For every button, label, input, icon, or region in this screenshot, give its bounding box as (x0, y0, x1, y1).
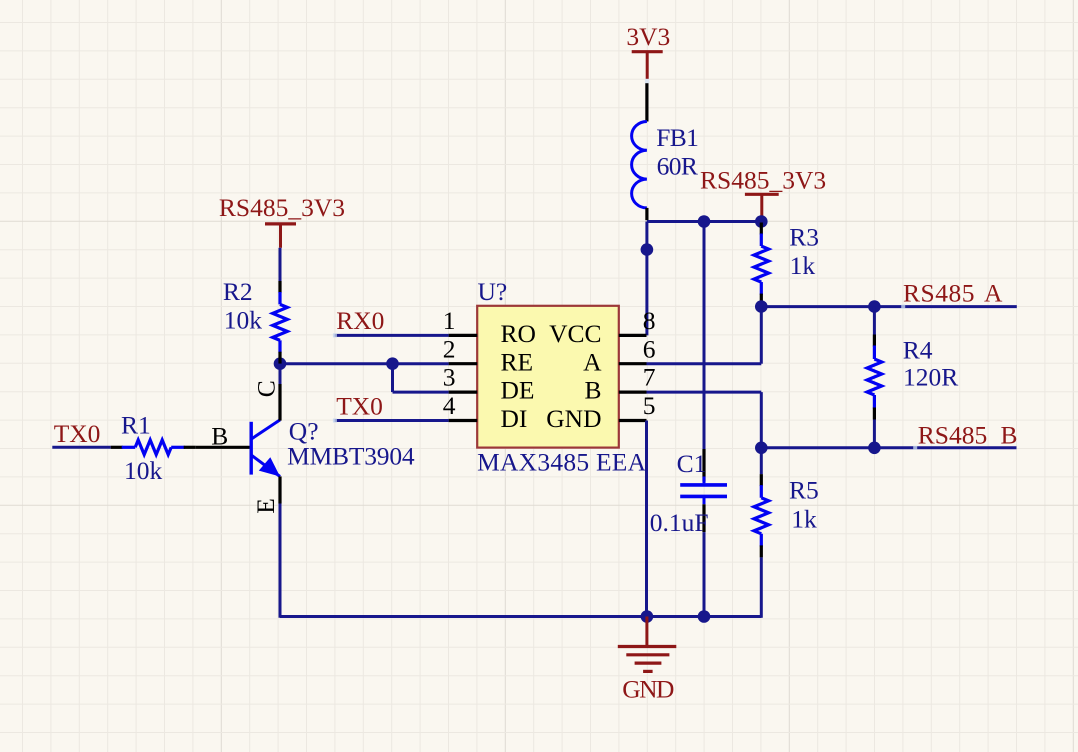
junction dot (755, 215, 768, 228)
svg-text:DI: DI (501, 404, 528, 433)
svg-text:U?: U? (478, 277, 508, 306)
emitter pin (278, 476, 281, 503)
svg-text:1k: 1k (791, 504, 817, 533)
op IC U1 body (477, 306, 619, 448)
resistor R4 (873, 335, 876, 347)
wire FB down to pin8 (645, 222, 648, 336)
svg-text:3: 3 (443, 363, 456, 392)
svg-text:5: 5 (643, 391, 656, 420)
joint marker (913, 446, 917, 450)
collector pin (278, 384, 281, 421)
junction dot (641, 610, 654, 623)
svg-text:E: E (251, 498, 280, 514)
joint marker (333, 419, 337, 423)
junction dot (641, 243, 654, 256)
wire B to pin7 (647, 391, 762, 394)
svg-text:8: 8 (643, 306, 656, 335)
wire RS485_A line (761, 305, 1017, 308)
svg-text:B: B (211, 421, 228, 450)
junction dot (868, 300, 881, 313)
wire pin2 (280, 362, 449, 365)
svg-text:MAX3485 EEA: MAX3485 EEA (477, 448, 647, 477)
wire DE branch (391, 364, 394, 392)
wire top bus (647, 220, 761, 223)
svg-text:B: B (584, 376, 601, 405)
junction dot (755, 300, 768, 313)
svg-text:1k: 1k (790, 251, 816, 280)
wire bottom bus (280, 615, 761, 618)
resistor R3 (760, 223, 763, 235)
ground symbol (645, 617, 648, 647)
svg-text:B: B (1001, 420, 1018, 449)
svg-text:RS485_3V3: RS485_3V3 (219, 193, 345, 222)
joint marker (333, 333, 337, 337)
IC pin right (619, 419, 647, 422)
svg-text:7: 7 (643, 363, 656, 392)
svg-text:RS485_3V3: RS485_3V3 (700, 166, 826, 195)
svg-text:3V3: 3V3 (626, 22, 670, 51)
svg-text:RS485: RS485 (918, 420, 987, 449)
IC pin right (619, 391, 647, 394)
svg-text:0.1uF: 0.1uF (650, 508, 709, 537)
svg-text:2: 2 (443, 334, 456, 363)
wire R5 bottom (760, 557, 763, 617)
power 3V3 symbol (632, 50, 663, 53)
svg-text:R1: R1 (121, 411, 151, 440)
svg-text:VCC: VCC (549, 319, 601, 348)
IC pin left (449, 391, 478, 394)
ferrite bead FB1 (632, 122, 647, 208)
power RS485_3V3 right symbol (745, 193, 779, 196)
wire pin5 down (645, 421, 648, 617)
wire TX0 left (52, 446, 110, 449)
svg-text:MMBT3904: MMBT3904 (287, 442, 415, 471)
IC pin right (619, 362, 647, 365)
svg-text:GND: GND (546, 404, 601, 433)
junction dot (698, 215, 711, 228)
resistor R5 (760, 474, 763, 486)
svg-text:R5: R5 (789, 476, 819, 505)
wire R4 top (873, 307, 876, 335)
wire RS485_B line (761, 446, 1016, 449)
wire A to pin6 (647, 362, 762, 365)
svg-text:A: A (984, 278, 1003, 307)
svg-text:FB1: FB1 (656, 123, 698, 152)
wire base (196, 446, 250, 449)
svg-text:1: 1 (443, 306, 456, 335)
junction dot (868, 442, 881, 455)
wire TX0 pin4 (335, 419, 449, 422)
capacitor C1 top pin (702, 449, 705, 482)
resistor R2 (278, 281, 281, 293)
capacitor C1 (703, 477, 706, 484)
svg-text:60R: 60R (657, 152, 698, 181)
capacitor C1 bottom pin (702, 504, 705, 532)
svg-text:DE: DE (501, 376, 535, 405)
joint marker (901, 305, 905, 309)
joint marker (645, 79, 649, 83)
wire emitter down (279, 504, 282, 618)
IC pin left (449, 362, 478, 365)
wire 3V3 to FB1 (pin) (645, 79, 648, 122)
svg-text:R3: R3 (789, 222, 819, 251)
svg-text:RE: RE (501, 347, 534, 376)
wire power to R2 (279, 248, 282, 281)
IC pin right (619, 334, 647, 337)
svg-text:TX0: TX0 (54, 419, 101, 448)
junction dot (386, 357, 399, 370)
wire R5 top (760, 448, 763, 474)
IC pin left (449, 419, 478, 422)
svg-text:C: C (251, 380, 280, 397)
wire R4 bottom (873, 420, 876, 448)
svg-text:4: 4 (443, 391, 456, 420)
svg-text:GND: GND (622, 675, 674, 704)
svg-text:C1: C1 (677, 449, 707, 478)
svg-text:120R: 120R (903, 363, 958, 392)
svg-text:RS485: RS485 (903, 278, 975, 307)
junction dot (755, 442, 768, 455)
FB1 pin bottom (645, 208, 648, 220)
svg-text:R4: R4 (903, 336, 933, 365)
wire collector (279, 364, 282, 384)
wire RX0 (335, 334, 449, 337)
svg-text:RX0: RX0 (336, 306, 384, 335)
junction dot (274, 357, 287, 370)
svg-text:RO: RO (501, 319, 536, 348)
wire C1 branch vertical (703, 222, 706, 450)
svg-text:R2: R2 (223, 277, 253, 306)
wire C1 to bus (703, 532, 706, 616)
transistor Q1 (249, 422, 252, 475)
svg-text:A: A (583, 347, 602, 376)
svg-text:TX0: TX0 (336, 391, 383, 420)
IC pin left (449, 334, 478, 337)
power RS485_3V3 left symbol (265, 222, 296, 225)
svg-text:10k: 10k (124, 456, 163, 485)
junction dot (698, 610, 711, 623)
resistor R1 (111, 446, 123, 449)
svg-text:6: 6 (643, 334, 656, 363)
svg-text:10k: 10k (224, 306, 262, 335)
